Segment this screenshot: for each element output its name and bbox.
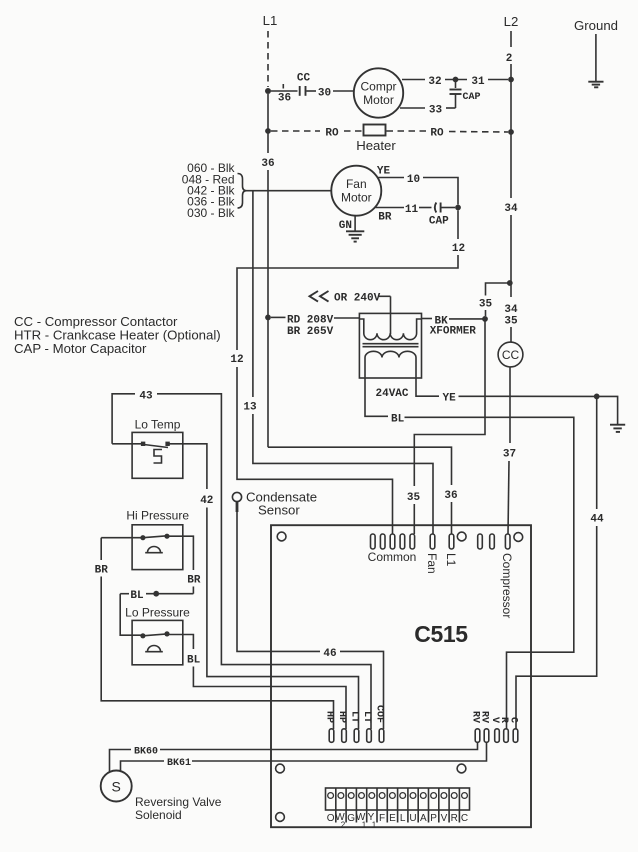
- svg-text:CAP: CAP: [429, 216, 449, 228]
- pin COF: [379, 729, 384, 743]
- wire 42 lo temp to board LT: [168, 444, 207, 489]
- svg-text:Lo Temp: Lo Temp: [135, 418, 181, 432]
- svg-text:Ground: Ground: [574, 18, 618, 33]
- wire BL jumper: [120, 593, 129, 595]
- pin RV 1: [475, 729, 480, 743]
- capacitor CAP (compressor): [455, 82, 457, 88]
- terminal screws: [328, 793, 468, 799]
- svg-text:L2: L2: [504, 14, 519, 29]
- svg-text:R: R: [451, 813, 458, 824]
- terminal strip dividers: [336, 788, 460, 823]
- brace for motor taps: [238, 174, 247, 209]
- svg-text:G: G: [347, 813, 355, 824]
- pin LT 1: [354, 729, 359, 743]
- junction on L1 at CC contact: [265, 88, 271, 94]
- svg-text:35: 35: [504, 316, 518, 328]
- svg-text:36: 36: [278, 93, 291, 105]
- svg-text:34: 34: [504, 304, 518, 316]
- wire 43 lo temp loop: [112, 394, 135, 444]
- svg-text:C: C: [461, 813, 468, 824]
- pin Common 5: [410, 534, 415, 549]
- svg-text:CC: CC: [502, 348, 520, 362]
- svg-text:11: 11: [405, 204, 419, 216]
- svg-text:10: 10: [407, 174, 420, 186]
- svg-text:YE: YE: [443, 392, 457, 404]
- wire 46 condensate sensor to board COF: [236, 502, 239, 512]
- wire contact to 30: [307, 90, 317, 92]
- fan motor circle: [331, 166, 381, 216]
- svg-text:GN: GN: [339, 220, 352, 232]
- wire 44 YE node to board C: [596, 399, 598, 509]
- junction on L1 at transformer: [265, 315, 271, 321]
- transformer core: [363, 343, 419, 345]
- wire tag tick 36: [282, 84, 284, 89]
- svg-text:Fan: Fan: [425, 553, 439, 574]
- svg-text:1: 1: [372, 821, 377, 830]
- svg-text:42: 42: [200, 495, 213, 507]
- junction YE ground node: [594, 394, 600, 400]
- pin HP 1: [329, 729, 334, 743]
- pin C: [513, 729, 518, 743]
- wire lead node to CC contact: [271, 90, 298, 92]
- wire 10 fan to cap node: [378, 177, 404, 179]
- pin spare 1: [478, 534, 483, 549]
- svg-text:BR: BR: [95, 565, 109, 577]
- svg-text:12: 12: [452, 243, 465, 255]
- capacitor CAP (fan): [435, 203, 437, 213]
- svg-text:COF: COF: [374, 705, 385, 723]
- contact CC bar left: [299, 86, 301, 96]
- svg-text:36: 36: [444, 490, 457, 502]
- svg-text:OR 240V: OR 240V: [334, 293, 381, 305]
- svg-text:Motor: Motor: [363, 93, 394, 107]
- pin V: [495, 729, 500, 743]
- svg-text:31: 31: [471, 76, 485, 88]
- pin R: [504, 729, 509, 743]
- svg-text:24VAC: 24VAC: [376, 388, 409, 400]
- svg-text:RO: RO: [325, 128, 339, 140]
- pin Compressor: [505, 534, 510, 549]
- pin spare 2: [490, 534, 495, 549]
- transformer box: [359, 313, 421, 378]
- svg-text:34: 34: [504, 203, 518, 215]
- svg-text:32: 32: [428, 76, 441, 88]
- junction fan cap node: [455, 205, 461, 211]
- svg-text:Lo Pressure: Lo Pressure: [125, 606, 190, 620]
- junction on L2: [507, 280, 513, 286]
- wire L1 vertical lower run: [267, 170, 269, 447]
- ground (fan motor): [354, 216, 356, 231]
- svg-text:Sensor: Sensor: [258, 503, 300, 518]
- svg-text:S: S: [112, 779, 121, 795]
- switch Lo Pressure contacts: [140, 633, 145, 638]
- switch Hi Pressure diaphragm: [145, 547, 163, 553]
- wire BK transformer to 35: [422, 318, 433, 320]
- contactor coil CC: [498, 342, 523, 367]
- svg-text:R: R: [498, 717, 509, 723]
- svg-text:RD 208V: RD 208V: [287, 315, 334, 327]
- svg-text:CAP - Motor Capacitor: CAP - Motor Capacitor: [14, 341, 147, 356]
- svg-text:C515: C515: [414, 621, 468, 647]
- svg-text:46: 46: [323, 648, 336, 660]
- wire 35 BK node to board common: [414, 319, 485, 486]
- switch Hi Pressure box: [132, 525, 183, 570]
- wire 13 tap junction down: [252, 191, 254, 397]
- svg-text:A: A: [420, 813, 427, 824]
- switch Lo Pressure diaphragm: [145, 646, 163, 652]
- reversing valve solenoid S: [101, 771, 132, 802]
- heater dashed wire RO right: [387, 130, 427, 132]
- svg-text:35: 35: [479, 299, 493, 311]
- svg-text:43: 43: [139, 390, 153, 402]
- wire L1 vertical: [267, 94, 269, 153]
- pin Common 4: [400, 534, 405, 549]
- junction BK node: [482, 316, 488, 322]
- svg-text:Common: Common: [368, 550, 417, 564]
- svg-text:BR 265V: BR 265V: [287, 326, 334, 338]
- contact CC bar right: [305, 86, 307, 96]
- wire lo temp left lead: [112, 443, 143, 445]
- wire BL secondary to board R: [365, 377, 388, 416]
- wire BR hi pressure right lead: [167, 536, 193, 570]
- svg-text:1: 1: [362, 821, 367, 830]
- switch Lo Temp contacts: [141, 442, 145, 446]
- svg-text:Compressor: Compressor: [500, 553, 514, 618]
- wire BL lo pressure to board HP: [167, 635, 193, 650]
- svg-text:YE: YE: [377, 166, 391, 178]
- transformer primary winding: [359, 319, 421, 340]
- svg-text:13: 13: [243, 402, 257, 414]
- pin Fan: [430, 534, 435, 549]
- svg-text:LT: LT: [349, 711, 360, 723]
- svg-text:2: 2: [506, 53, 513, 65]
- svg-text:BR: BR: [187, 575, 201, 587]
- svg-text:Reversing Valve: Reversing Valve: [135, 795, 222, 809]
- svg-text:E: E: [389, 813, 396, 824]
- junction cap top: [453, 77, 459, 83]
- wire 32 motor to cap: [402, 79, 425, 81]
- svg-text:O: O: [327, 813, 335, 824]
- wire L1 dashed field segment: [267, 31, 269, 87]
- svg-text:F: F: [379, 813, 385, 824]
- svg-text:C: C: [508, 717, 519, 723]
- pin Common 3: [390, 534, 395, 549]
- switch Lo Pressure box: [132, 620, 183, 664]
- pin Common 1: [371, 534, 376, 549]
- svg-text:L1: L1: [444, 553, 458, 567]
- svg-text:U: U: [409, 813, 416, 824]
- junction on L2: [508, 77, 514, 83]
- svg-text:12: 12: [230, 354, 243, 366]
- svg-text:L1: L1: [263, 13, 278, 28]
- svg-text:BL: BL: [391, 413, 405, 425]
- svg-text:RO: RO: [430, 128, 444, 140]
- ground (24V secondary): [610, 424, 625, 426]
- svg-text:L: L: [400, 813, 406, 824]
- svg-text:CC: CC: [297, 73, 311, 85]
- svg-text:Solenoid: Solenoid: [135, 808, 182, 822]
- junction BL jumper: [153, 591, 159, 597]
- svg-text:35: 35: [407, 492, 421, 504]
- switch Lo Temp bimetal element: [154, 450, 163, 464]
- switch Hi Pressure contacts: [140, 535, 145, 540]
- junction on L1 at heater: [265, 128, 271, 134]
- control board C515 outline: [271, 525, 531, 827]
- svg-text:Fan: Fan: [346, 177, 367, 191]
- svg-text:LT: LT: [361, 711, 372, 723]
- svg-text:BK60: BK60: [134, 747, 158, 758]
- svg-text:37: 37: [503, 449, 516, 461]
- pin Common 2: [380, 534, 385, 549]
- svg-text:V: V: [441, 813, 448, 824]
- svg-text:44: 44: [590, 514, 604, 526]
- svg-text:HP: HP: [336, 711, 347, 723]
- svg-text:Motor: Motor: [341, 191, 372, 205]
- pin HP 2: [342, 729, 347, 743]
- wire 35 L2 branch to BK node: [486, 283, 510, 296]
- svg-text:030 - Blk: 030 - Blk: [187, 206, 235, 220]
- svg-text:XFORMER: XFORMER: [430, 325, 477, 337]
- svg-text:BK61: BK61: [167, 758, 191, 769]
- wire BK60 solenoid to board RV: [110, 750, 132, 773]
- wire 33 cap to motor: [446, 107, 456, 109]
- svg-text:36: 36: [261, 158, 274, 170]
- condensate sensor: [232, 492, 241, 501]
- wire L2 vertical top: [510, 31, 512, 47]
- wire 37 CC coil to board: [509, 367, 511, 443]
- wire 30 to compressor motor: [333, 90, 354, 92]
- terminal strip outline: [326, 788, 470, 810]
- svg-text:33: 33: [429, 105, 443, 117]
- wire 11 fan to cap: [376, 207, 405, 209]
- transformer secondary winding: [365, 351, 416, 377]
- svg-text:30: 30: [318, 88, 331, 100]
- wire YE secondary to ground: [416, 377, 439, 396]
- svg-text:2: 2: [341, 821, 346, 830]
- wire 12 fan cap to board common: [457, 210, 459, 239]
- crankcase heater dashed wire RO left: [271, 130, 320, 132]
- switch Lo Temp box: [132, 432, 183, 478]
- wire L2 vertical: [510, 132, 512, 198]
- wire BR hi pressure to board HP: [101, 537, 143, 539]
- OR 240V arrow: [310, 291, 329, 302]
- wire BK61 solenoid to board RV: [121, 761, 165, 772]
- pin RV 2: [484, 729, 489, 743]
- compressor motor circle: [354, 68, 403, 117]
- svg-text:Compr: Compr: [360, 80, 396, 94]
- wire 31 to L2: [488, 79, 508, 81]
- terminal letters: [327, 812, 468, 830]
- junction on L2 at heater: [508, 129, 514, 135]
- pin LT 2: [367, 729, 372, 743]
- svg-text:P: P: [430, 813, 437, 824]
- svg-text:BL: BL: [187, 655, 201, 667]
- wire L1 to transformer primary: [271, 316, 286, 318]
- svg-text:CAP: CAP: [462, 92, 480, 103]
- board mounting holes: [277, 532, 286, 541]
- transformer primary center tap: [390, 296, 392, 334]
- svg-text:HP: HP: [324, 711, 335, 723]
- wire taps to fan motor: [247, 190, 332, 192]
- svg-text:BR: BR: [378, 212, 392, 224]
- svg-text:Heater: Heater: [356, 138, 396, 153]
- svg-text:RV: RV: [479, 711, 490, 723]
- svg-text:Hi Pressure: Hi Pressure: [126, 509, 189, 523]
- wire 36 L1 to board L1: [268, 447, 452, 485]
- heater HTR element: [364, 125, 386, 136]
- pin L1: [449, 534, 454, 549]
- svg-text:BL: BL: [130, 590, 144, 602]
